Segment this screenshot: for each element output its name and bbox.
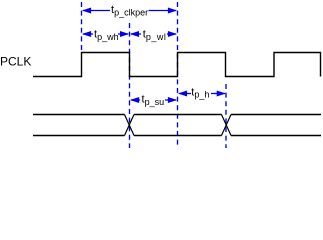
svg-text:PCLK: PCLK	[0, 55, 31, 69]
dashed reference line at second clock rising edge	[177, 2, 179, 147]
dimension arrow t_p_wh	[83, 33, 128, 35]
PCLK clock waveform	[33, 53, 321, 77]
dimension arrow t_p_h	[179, 93, 225, 95]
dimension arrow t_p_su	[131, 99, 176, 101]
dashed reference line at data transition / hold limit	[225, 84, 227, 148]
dimension arrow t_p_clkper	[83, 10, 176, 12]
dashed reference line at first clock rising edge	[81, 2, 83, 52]
dimension arrow t_p_wl	[131, 33, 176, 35]
data bus bottom rail	[33, 135, 321, 137]
dashed reference line at first clock falling edge	[129, 23, 131, 148]
data transition crossover X2	[222, 115, 232, 136]
data transition crossover X1	[125, 115, 135, 136]
data bus top rail	[33, 114, 321, 116]
